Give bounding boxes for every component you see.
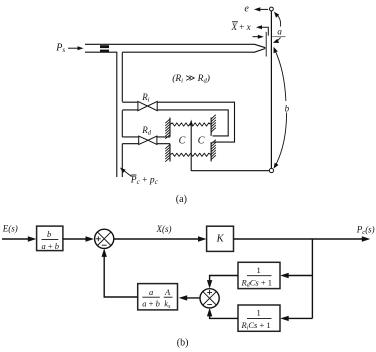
arc dimension a upper <box>274 12 281 27</box>
pivot circle top <box>270 7 274 11</box>
svg-text:1: 1 <box>257 308 261 318</box>
wire Rd block to SJ2 with corner and arrow <box>207 276 238 289</box>
wire feedback to SJ1 with corners and arrow <box>102 248 138 297</box>
block b/(a+b) <box>37 226 63 251</box>
arrow input E(s) <box>2 236 36 241</box>
svg-text:(b): (b) <box>177 337 189 348</box>
svg-text:a + b: a + b <box>142 299 160 309</box>
arc dimension b upper <box>274 47 286 101</box>
svg-text:1: 1 <box>257 265 261 275</box>
wire Ri block to SJ2 with corner and arrow <box>207 308 238 319</box>
svg-text:RiCs + 1: RiCs + 1 <box>241 320 271 331</box>
wire Rd branch pipe top line <box>122 136 170 138</box>
wire Ri branch pipe inner line <box>122 110 228 136</box>
svg-text:C: C <box>179 136 186 147</box>
svg-text:A: A <box>164 287 171 297</box>
label Ps (supply pressure) <box>55 43 65 55</box>
svg-text:C: C <box>198 135 205 146</box>
overbar on X <box>232 21 238 23</box>
wire SJ2 to feedback block with arrow <box>179 295 200 300</box>
wire Rd branch pipe bottom line <box>122 143 170 145</box>
arrow e direction <box>254 7 268 11</box>
arrow block1 to summing junction 1 <box>63 236 94 241</box>
svg-text:RdCs + 1: RdCs + 1 <box>241 277 272 288</box>
tick dimension line right of flapper <box>272 36 285 38</box>
wire feedback branch vertical <box>311 239 313 318</box>
flapper vertical link <box>270 11 272 169</box>
wire Ri branch pipe outer line <box>122 102 234 142</box>
arrow upper displacement with corner bracket <box>256 25 268 35</box>
wire vertical pipe right line segments <box>121 52 123 177</box>
valve Rd (bowtie) <box>139 136 157 144</box>
block 1/(RiCs+1) <box>238 305 280 331</box>
bellows bottom wavy diaphragm <box>170 153 211 156</box>
wire supply pipe top line <box>85 43 255 45</box>
svg-text:b: b <box>285 103 290 113</box>
svg-text:a: a <box>277 27 282 37</box>
svg-text:X + x: X + x <box>231 22 251 32</box>
bellows center rod <box>190 123 192 171</box>
pivot circle bottom <box>269 168 273 172</box>
wire SJ1 to K with arrow <box>114 236 207 241</box>
block 1/(RdCs+1) <box>238 262 280 288</box>
bellows right wall edge <box>210 118 212 162</box>
svg-text:a: a <box>149 287 153 297</box>
svg-text:b: b <box>47 229 51 239</box>
bellows right wall hatching <box>211 115 216 160</box>
orifice restriction bars <box>100 45 109 52</box>
bellows left wall edge <box>169 118 171 162</box>
valve Ri (bowtie) <box>138 101 157 110</box>
wire branch to Ri block with arrow <box>280 316 312 321</box>
svg-text:K: K <box>216 234 225 245</box>
block K <box>207 226 234 251</box>
wire branch to Rd block with arrow <box>280 273 312 278</box>
arc dimension b lower <box>274 113 287 169</box>
wire vertical pipe left line <box>116 52 118 177</box>
svg-text:Pc + pc: Pc + pc <box>130 175 159 186</box>
svg-text:E(s): E(s) <box>2 224 18 234</box>
wire supply pipe bottom line left of tee <box>85 51 117 53</box>
leader arrow to output pipe <box>120 168 132 177</box>
nozzle face reference line <box>265 32 267 57</box>
nozzle taper <box>255 44 266 52</box>
bellows left wall hatching <box>165 119 170 162</box>
svg-text:X(s): X(s) <box>156 224 172 234</box>
wire supply pipe bottom line right of tee <box>122 51 255 53</box>
svg-text:e: e <box>244 4 249 15</box>
svg-text:Pc(s): Pc(s) <box>356 224 375 235</box>
arc dimension a lower <box>273 38 281 44</box>
overbar on Pc <box>131 174 137 176</box>
summing junction 2 <box>200 289 219 308</box>
bellows top wavy diaphragm <box>170 123 211 126</box>
arrowhead rod motion up <box>189 120 193 126</box>
wire K to output Pc(s) <box>234 236 371 241</box>
arrow Ps input <box>68 46 84 50</box>
svg-text:a + b: a + b <box>42 241 60 251</box>
arrow lower displacement toward nozzle face <box>253 35 264 39</box>
block a/(a+b) A/ks <box>138 284 178 310</box>
svg-text:(a): (a) <box>176 194 187 205</box>
wire rod to flapper bottom <box>191 170 269 172</box>
summing junction 1 <box>95 229 114 248</box>
